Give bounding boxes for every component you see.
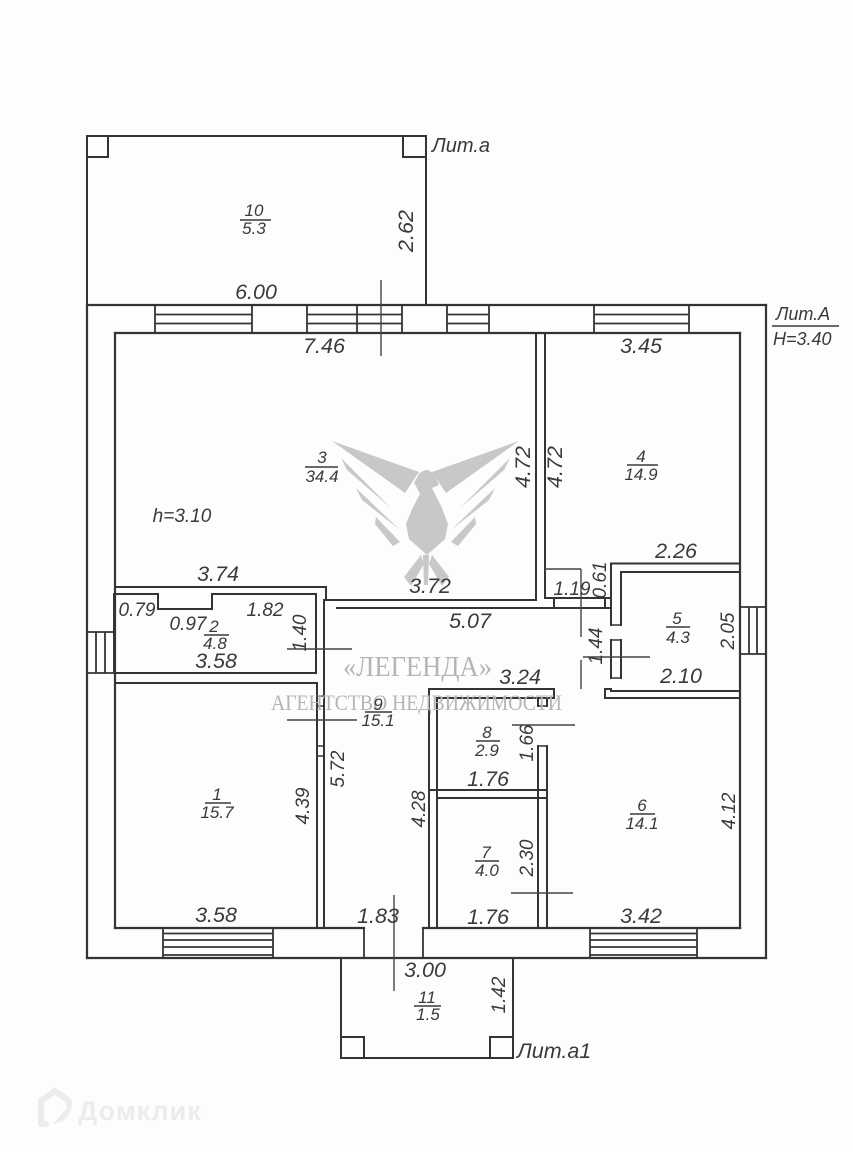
room7 underline [475,860,499,862]
door jambs to porch [364,928,423,958]
svg-text:Лит.А: Лит.А [775,304,830,324]
main bottom wall inner right of door [423,927,740,929]
room6 top line left of door [437,697,554,699]
svg-text:1.40: 1.40 [290,614,311,651]
room9/rooms78 partition left line [428,689,430,928]
partition room3/room4 left line [535,333,537,600]
svg-text:14.9: 14.9 [624,465,658,484]
main left wall inner [114,333,116,928]
dim tick 1.19 horizontal [545,568,581,570]
svg-text:5: 5 [672,609,682,628]
svg-text:15.7: 15.7 [200,803,234,822]
svg-text:2.30: 2.30 [517,839,538,877]
svg-text:3.42: 3.42 [620,904,662,928]
window W3 top wall [447,305,489,333]
room1 underline [205,802,231,804]
main right wall outer [765,305,767,958]
svg-text:1.76: 1.76 [467,767,509,791]
main right wall inner [739,333,741,928]
corridor top-left jog [325,587,327,600]
room2 right wall [315,594,317,673]
svg-text:«ЛЕГЕНДА»: «ЛЕГЕНДА» [343,651,492,683]
window W5 left wall [87,632,115,673]
svg-text:АГЕНТСТВО НЕДВИЖИМОСТИ: АГЕНТСТВО НЕДВИЖИМОСТИ [271,690,562,715]
svg-text:10: 10 [245,201,264,220]
watermark eagle [332,441,519,586]
svg-text:4.12: 4.12 [719,792,740,829]
svg-text:4.39: 4.39 [293,787,314,824]
svg-text:0.61: 0.61 [590,562,611,599]
door jambs room4 entry [554,598,605,608]
window W2 top wall [307,305,402,333]
svg-text:6: 6 [637,796,647,815]
window W7 bottom wall [163,928,273,958]
corridor bottom upper line right [605,688,611,690]
svg-text:1.76: 1.76 [467,905,509,929]
svg-text:Лит.а: Лит.а [430,135,490,157]
porch pillar bottom-right [490,1037,513,1058]
room5 underline [666,626,690,628]
wall piece right of room3 partition [545,597,611,599]
dimension labels [119,135,839,1063]
window W1 top wall [155,305,252,333]
svg-text:34.4: 34.4 [305,467,338,486]
corridor top upper line [326,599,536,601]
svg-text:4.72: 4.72 [511,446,535,488]
room8 door caps [538,706,547,746]
veranda pillar top-right [403,136,426,157]
door jambs room6 entry [554,689,605,698]
veranda Lit.a outline [87,136,426,304]
label Lit.A underline [772,325,839,327]
window W4 top wall [594,305,689,333]
svg-text:1.42: 1.42 [489,976,510,1013]
window W8 bottom wall [590,928,697,958]
svg-text:h=3.10: h=3.10 [153,506,212,527]
dim extension line top (6.00/7.46) [380,280,382,356]
room4/room5 partition upper [611,563,740,565]
watermark Domclick fold [53,1102,72,1124]
corridor top lower line [337,607,611,609]
room8/room7 partition upper [429,789,547,791]
watermark Domclick house icon [41,1091,69,1124]
main left wall outer [86,305,88,958]
svg-text:3: 3 [317,448,327,467]
room6 underline [630,813,655,815]
svg-text:3.00: 3.00 [404,958,446,982]
svg-text:7: 7 [481,843,491,862]
svg-text:7.46: 7.46 [303,334,345,358]
svg-text:Лит.а1: Лит.а1 [515,1039,591,1063]
room6 top line right of door [605,697,740,699]
window W6 right wall [740,607,766,654]
svg-text:4.0: 4.0 [475,861,499,880]
svg-text:1.44: 1.44 [586,628,607,665]
partition room3/room2 upper line [115,586,326,588]
svg-text:4: 4 [636,447,645,466]
room10 underline [240,219,271,221]
room1/room9 partition left line [316,683,318,928]
svg-text:3.24: 3.24 [499,665,541,689]
room9 underline [365,711,392,713]
svg-text:14.1: 14.1 [625,814,658,833]
svg-text:1.19: 1.19 [554,579,591,600]
svg-text:2.05: 2.05 [718,612,739,650]
svg-text:4.3: 4.3 [666,628,690,647]
dim leader 2.30 [511,892,573,894]
porch Lit.a1 outline [341,958,513,1058]
dim extension porch 3.00 [393,895,395,991]
svg-text:H=3.40: H=3.40 [773,329,832,349]
svg-text:8: 8 [482,723,492,742]
room5 bottom upper line [611,690,740,692]
svg-text:5.72: 5.72 [328,750,349,787]
corridor bottom upper line left [429,688,554,690]
svg-text:1.66: 1.66 [517,724,538,761]
svg-text:5.3: 5.3 [242,219,266,238]
room2 underline [204,634,229,636]
room3 underline [305,466,338,468]
room5 left wall outer line [610,564,612,692]
room2 top edge with niche [114,594,316,609]
porch pillar bottom-left [341,1037,364,1058]
room8 underline [476,740,500,742]
dim leader room9 label [287,719,357,721]
room4 underline [627,464,658,466]
room2 bottom [114,672,316,674]
room8/room7 partition lower [437,797,547,799]
dim extension 1.19 vertical [580,569,582,689]
rooms78/room6 partition left line [537,698,539,928]
partition room3/room4 right line [544,333,546,598]
svg-text:3.58: 3.58 [195,649,237,673]
dim leader 1.44 [583,656,650,658]
svg-text:0.79: 0.79 [119,600,156,621]
svg-text:6.00: 6.00 [235,280,277,304]
room1 top [116,682,317,684]
main bottom wall outer [87,957,766,959]
room9/rooms78 partition right line [436,698,438,928]
svg-text:0.97: 0.97 [170,614,208,635]
main bottom wall inner left of door [115,927,364,929]
svg-text:Домклик: Домклик [78,1096,202,1126]
svg-text:2.26: 2.26 [654,539,697,563]
svg-text:1: 1 [212,785,221,804]
room11 underline [414,1005,441,1007]
room2 left edge [113,594,115,673]
main top wall outer [87,304,766,306]
svg-text:3.74: 3.74 [197,562,239,586]
svg-text:2.9: 2.9 [474,741,499,760]
rooms78/room6 partition right line [546,698,548,928]
room4/room5 partition lower [621,571,740,573]
svg-text:4.28: 4.28 [409,790,430,827]
veranda pillar top-left [87,136,108,157]
room5 left wall inner line [620,572,622,678]
svg-text:1.82: 1.82 [247,600,284,621]
svg-text:1.5: 1.5 [416,1005,440,1024]
main top wall inner [115,332,740,334]
dim leader 1.66 [512,724,575,726]
svg-text:2.10: 2.10 [659,664,702,688]
room2/corridor wall second line [323,600,325,683]
room5 door caps [611,625,621,678]
svg-text:4.72: 4.72 [543,446,567,488]
svg-text:15.1: 15.1 [361,711,394,730]
room1/room9 door caps [317,696,324,756]
svg-text:3.72: 3.72 [409,574,451,598]
svg-text:5.07: 5.07 [449,609,492,633]
svg-text:3.58: 3.58 [195,903,237,927]
room1/room9 partition right line [323,683,325,928]
svg-text:2.62: 2.62 [394,210,418,253]
dim leader 1.40 [287,648,352,650]
svg-text:3.45: 3.45 [620,334,663,358]
svg-text:1.83: 1.83 [357,904,399,928]
